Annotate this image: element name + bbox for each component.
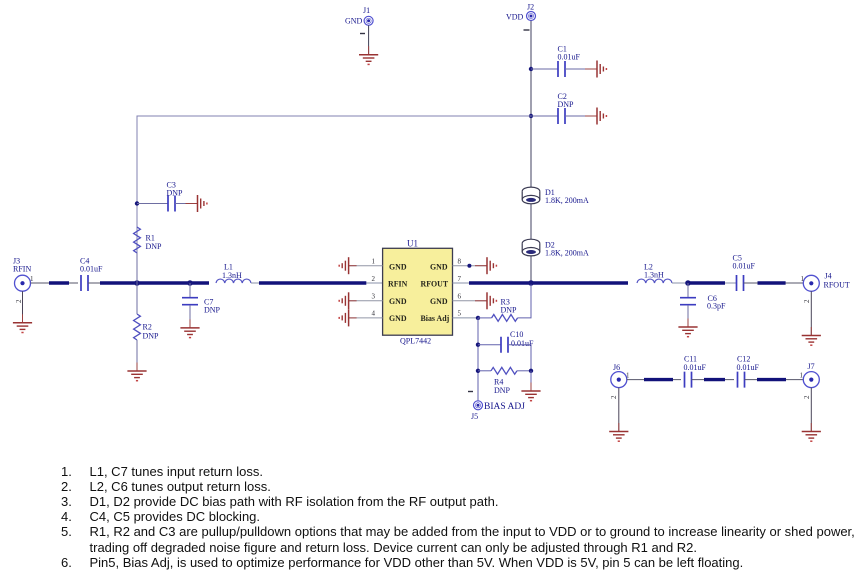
svg-text:7: 7 bbox=[458, 275, 462, 283]
capacitor C2 bbox=[558, 92, 575, 124]
wire C12 to J7 bbox=[745, 379, 804, 381]
ground under R4 bbox=[521, 383, 540, 401]
wire thick seg output2 bbox=[688, 281, 725, 284]
wire C2 left bbox=[531, 115, 558, 117]
node VDD-C1 junction bbox=[529, 67, 533, 71]
wire D2 to RF line bbox=[530, 256, 532, 283]
ground under J4 bbox=[802, 327, 821, 345]
wire L2 leads bbox=[672, 282, 688, 284]
svg-text:GND: GND bbox=[345, 17, 363, 26]
capacitor C5 bbox=[733, 254, 756, 292]
wire C5 left bbox=[725, 282, 737, 284]
node VDD-C2 junction bbox=[529, 114, 533, 118]
capacitor C10 bbox=[501, 330, 534, 353]
wire thick seg input2 bbox=[100, 281, 209, 284]
wire R1-R2 link bbox=[136, 253, 138, 314]
svg-text:0.01uF: 0.01uF bbox=[737, 363, 760, 372]
node pin8 junction bbox=[467, 264, 471, 268]
svg-text:1.8K, 200mA: 1.8K, 200mA bbox=[545, 196, 589, 205]
svg-text:J4: J4 bbox=[825, 272, 832, 281]
resistor R1 bbox=[134, 227, 162, 253]
wire pin1 bbox=[349, 265, 383, 267]
wire C6 to ground bbox=[687, 305, 689, 327]
wire J4 stem bbox=[810, 291, 812, 335]
svg-text:GND: GND bbox=[389, 262, 407, 271]
wire C3 left bbox=[137, 203, 168, 205]
svg-text:GND: GND bbox=[430, 262, 448, 271]
ferrite bead D2 bbox=[522, 239, 589, 257]
svg-text:J7: J7 bbox=[808, 362, 815, 371]
node C3 junction bbox=[135, 201, 139, 205]
wire L1 to U1 bbox=[251, 282, 383, 284]
wire J3 stem bbox=[22, 291, 24, 323]
wire C4 right bbox=[88, 282, 137, 284]
svg-text:8: 8 bbox=[458, 258, 462, 266]
svg-text:J1: J1 bbox=[363, 6, 370, 15]
svg-text:2: 2 bbox=[803, 395, 811, 399]
svg-text:RFIN: RFIN bbox=[13, 265, 31, 274]
svg-text:2: 2 bbox=[610, 395, 618, 399]
svg-text:DNP: DNP bbox=[146, 242, 163, 251]
node RFIN-R1 junction bbox=[134, 280, 140, 286]
node C7 junction bbox=[187, 280, 193, 286]
ground under J1 bbox=[359, 46, 378, 64]
wire C10 right bbox=[508, 345, 531, 371]
svg-text:6: 6 bbox=[458, 293, 462, 301]
ground right of C3 bbox=[186, 195, 207, 212]
svg-text:GND: GND bbox=[430, 297, 448, 306]
wire thick seg bottom2 bbox=[704, 378, 725, 381]
svg-text:DNP: DNP bbox=[494, 386, 511, 395]
wire C2 right bbox=[565, 115, 597, 117]
connector J1 bbox=[345, 6, 373, 26]
wire thick seg output1 bbox=[469, 281, 628, 284]
resistor R3 bbox=[492, 298, 518, 322]
svg-text:GND: GND bbox=[389, 314, 407, 323]
wire C11 to C12 bbox=[692, 379, 735, 381]
svg-text:GND: GND bbox=[389, 297, 407, 306]
connector J4 bbox=[801, 272, 850, 292]
inductor L1 bbox=[216, 263, 251, 283]
svg-text:RFOUT: RFOUT bbox=[824, 281, 850, 290]
resistor R2 bbox=[134, 314, 159, 340]
pin 1 marker J5 bbox=[468, 391, 473, 393]
wire D1-D2 link bbox=[530, 204, 532, 240]
wire J3 to C4 bbox=[31, 282, 79, 284]
svg-text:4: 4 bbox=[372, 310, 376, 318]
wire C6 stub bbox=[687, 283, 689, 298]
capacitor C4 bbox=[80, 257, 103, 292]
wire R2 to ground bbox=[136, 340, 138, 371]
pin names U1 bbox=[388, 262, 450, 323]
inductor L2 bbox=[637, 263, 672, 284]
wire J6 to C11 bbox=[627, 379, 681, 381]
svg-text:2: 2 bbox=[803, 299, 811, 303]
wire C1 left bbox=[531, 68, 558, 70]
wire C1 right bbox=[565, 68, 597, 70]
svg-text:1.3nH: 1.3nH bbox=[644, 271, 664, 280]
capacitor C1 bbox=[558, 45, 581, 78]
capacitor C6 bbox=[680, 294, 726, 311]
ground pin4 bbox=[339, 309, 356, 326]
svg-text:1.3nH: 1.3nH bbox=[222, 271, 242, 280]
svg-text:0.01uF: 0.01uF bbox=[733, 262, 756, 271]
svg-text:VDD: VDD bbox=[506, 13, 524, 22]
wire pin5 rail down bbox=[477, 318, 479, 401]
wire R4 left bbox=[478, 370, 491, 372]
wire C3 right bbox=[175, 203, 198, 205]
ground pin8 bbox=[475, 257, 496, 274]
wire thick seg bottom3 bbox=[757, 378, 786, 381]
svg-text:1: 1 bbox=[800, 372, 804, 380]
resistor R4 bbox=[491, 367, 517, 394]
wire top rail horizontal bbox=[137, 116, 531, 283]
svg-text:RFOUT: RFOUT bbox=[421, 280, 449, 289]
wire thick seg input1 bbox=[49, 281, 69, 284]
node RFOUT-VDD junction bbox=[528, 280, 534, 286]
wire R3 left bbox=[478, 317, 492, 319]
svg-text:0.01uF: 0.01uF bbox=[684, 363, 707, 372]
ground pin3 bbox=[339, 292, 356, 309]
ground under J3 bbox=[13, 314, 32, 332]
op-amp U1 body bbox=[383, 238, 453, 345]
connector J3 bbox=[13, 257, 34, 292]
ground under J7 bbox=[802, 423, 821, 441]
node C6 junction bbox=[685, 280, 691, 286]
ground right of C1 bbox=[585, 61, 606, 78]
wire C7 to ground bbox=[189, 305, 191, 328]
svg-text:2: 2 bbox=[15, 299, 23, 303]
svg-text:U1: U1 bbox=[407, 238, 418, 248]
svg-text:DNP: DNP bbox=[167, 189, 184, 198]
connector J2 bbox=[506, 3, 536, 22]
wire thick seg input3 bbox=[259, 281, 366, 284]
svg-text:5: 5 bbox=[458, 310, 462, 318]
ground right of C2 bbox=[585, 108, 606, 125]
node R4 right junction bbox=[529, 369, 533, 373]
ground under J6 bbox=[609, 423, 628, 441]
svg-text:DNP: DNP bbox=[558, 100, 575, 109]
capacitor C12 bbox=[737, 355, 760, 388]
svg-text:0.01uF: 0.01uF bbox=[80, 265, 103, 274]
wire C7 stub bbox=[189, 283, 191, 298]
svg-text:DNP: DNP bbox=[501, 305, 518, 314]
svg-text:1: 1 bbox=[626, 372, 630, 380]
wire VDD vertical rail bbox=[530, 21, 532, 188]
ground under C6 bbox=[678, 319, 697, 337]
ground pin1 bbox=[339, 257, 356, 274]
connector J7 bbox=[800, 362, 820, 388]
wire C10 left bbox=[478, 344, 501, 346]
svg-text:1: 1 bbox=[801, 275, 805, 283]
wire R4 to ground bbox=[530, 371, 532, 391]
capacitor C7 bbox=[182, 298, 221, 315]
svg-text:3: 3 bbox=[372, 293, 376, 301]
node C10 junction bbox=[476, 343, 480, 347]
svg-text:R2: R2 bbox=[143, 323, 152, 332]
svg-text:2: 2 bbox=[372, 275, 376, 283]
wire thick seg bottom1 bbox=[644, 378, 673, 381]
wire pin8 bbox=[453, 265, 488, 267]
svg-text:0.01uF: 0.01uF bbox=[558, 53, 581, 62]
svg-text:Bias Adj: Bias Adj bbox=[421, 314, 450, 323]
svg-text:J6: J6 bbox=[613, 363, 620, 372]
svg-text:1: 1 bbox=[372, 258, 376, 266]
pin numbers U1 bbox=[372, 258, 462, 318]
capacitor C11 bbox=[684, 355, 707, 388]
wire R3 right to RF line bbox=[518, 285, 531, 318]
svg-text:1: 1 bbox=[30, 275, 34, 283]
wire pin7 RFOUT bbox=[453, 282, 470, 284]
wire J1 stem bbox=[368, 25, 370, 54]
pin 1 marker J2 bbox=[524, 29, 530, 31]
wire thick seg output3 bbox=[758, 281, 786, 284]
svg-text:J2: J2 bbox=[527, 3, 534, 12]
ground under R2 bbox=[127, 363, 146, 381]
svg-text:RFIN: RFIN bbox=[388, 280, 408, 289]
wire pin5 bbox=[453, 317, 479, 319]
wire J6 stem bbox=[618, 388, 620, 432]
node R4 left junction bbox=[476, 369, 480, 373]
wire R4 right bbox=[517, 370, 531, 372]
svg-text:C10: C10 bbox=[510, 330, 523, 339]
wire J7 stem bbox=[810, 388, 812, 432]
connector J6 bbox=[611, 363, 630, 388]
pin 1 marker J1 bbox=[360, 33, 365, 35]
notes list bbox=[61, 464, 72, 479]
ground under C7 bbox=[180, 319, 199, 337]
svg-text:DNP: DNP bbox=[204, 305, 221, 314]
wire pin6 bbox=[453, 300, 488, 302]
wire pin3 bbox=[349, 300, 383, 302]
svg-text:1.8K, 200mA: 1.8K, 200mA bbox=[545, 249, 589, 258]
node pin5 junction bbox=[476, 316, 480, 320]
svg-text:BIAS ADJ: BIAS ADJ bbox=[484, 402, 525, 412]
wire C5 right to J4 bbox=[744, 282, 804, 284]
svg-text:J5: J5 bbox=[471, 412, 478, 421]
connector J5 BIAS ADJ bbox=[471, 401, 525, 421]
capacitor C3 bbox=[167, 181, 184, 212]
wire pin4 bbox=[349, 317, 383, 319]
svg-text:DNP: DNP bbox=[143, 331, 160, 340]
svg-text:QPL7442: QPL7442 bbox=[400, 337, 431, 346]
svg-text:0.3pF: 0.3pF bbox=[707, 302, 726, 311]
ferrite bead D1 bbox=[522, 187, 589, 205]
ground pin6 bbox=[475, 292, 496, 309]
